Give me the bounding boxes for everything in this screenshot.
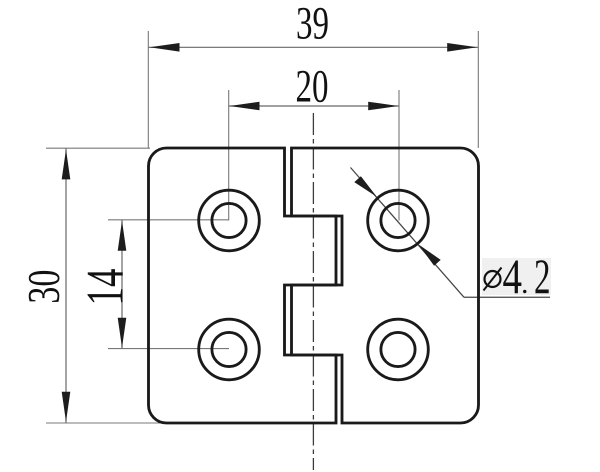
svg-text:20: 20 — [296, 60, 329, 112]
svg-text:2: 2 — [534, 248, 551, 304]
svg-text:39: 39 — [296, 0, 329, 50]
svg-text:.: . — [521, 267, 529, 300]
svg-text:14: 14 — [77, 269, 135, 306]
svg-text:4: 4 — [503, 248, 523, 304]
svg-text:30: 30 — [19, 270, 69, 304]
